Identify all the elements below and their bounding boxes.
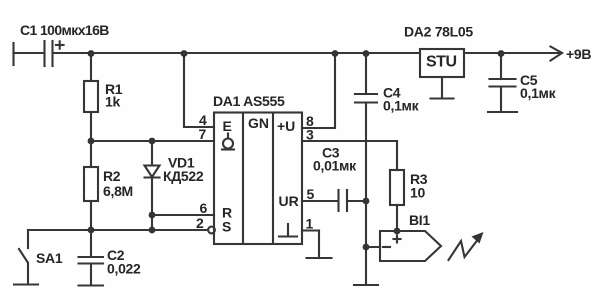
wire: C3 to ground line [347,200,366,202]
B1 plus mark [394,236,401,243]
ground (under DA2) [431,97,454,99]
capacitor C2 [79,230,104,285]
svg-text:DA2 78L05: DA2 78L05 [404,24,473,40]
wire: node A to node B [91,52,184,54]
wire: node C to node D [335,52,366,54]
switch SA1 [19,230,28,284]
junction: pin8 drop / node C [332,50,339,57]
resistor R1 [84,53,98,141]
wire: pin 8 to top rail [302,53,335,128]
wire: C1 to node A (top rail) [53,52,92,54]
voltage regulator DA2 78L05 [420,49,464,77]
svg-text:6,8M: 6,8M [103,183,133,199]
svg-text:1k: 1k [105,94,120,110]
svg-text:GN: GN [248,115,269,131]
junction: R1 top / node A [88,50,95,57]
junction: VD1 line / bottom wire [149,227,156,234]
wire: pin 5 to C3 [302,200,338,202]
junction: C5 top / node E [498,50,505,57]
wire: pin 7 net (R1/R2 to VD1 to IC pin7) [91,140,214,142]
input terminal (left) [12,43,14,65]
svg-text:1: 1 [306,216,314,232]
svg-text:+9В: +9В [566,46,591,62]
ground (under C5) [488,111,517,113]
wire: C4 bottom ground line [365,103,367,286]
capacitor C1 [45,41,64,66]
svg-text:0,1мк: 0,1мк [520,85,557,101]
wire: pin 6 to VD1 cathode line [152,214,214,216]
capacitor C5 [490,53,516,112]
svg-text:10: 10 [410,185,425,201]
capacitor C3 [339,190,348,211]
ground (under SA1) [14,283,38,285]
svg-text:BI1: BI1 [409,212,430,228]
svg-text:+U: +U [277,118,295,134]
wire: node E to +9V arrow [501,52,560,54]
resistor R2 [84,141,98,230]
capacitor C4 [355,53,377,103]
svg-text:2: 2 [196,215,204,231]
svg-text:SA1: SA1 [36,250,63,266]
sound wave zigzag arrow [449,232,484,260]
junction: pin4 drop / node B [181,50,188,57]
junction: B1 minus / ground line [363,244,370,251]
DA1 internal ground symbol [279,224,297,237]
ground lead of DA2 [441,77,443,98]
svg-text:STU: STU [426,54,457,71]
junction: R2 bottom / C2 top on bottom net [88,227,95,234]
DA1 internal generator symbol (circle under E) [222,134,234,150]
svg-text:E: E [223,118,232,134]
svg-text:7: 7 [199,126,207,142]
junction: C4 top / node D [363,50,370,57]
wire: pin 1 to ground [302,231,319,259]
svg-text:0,01мк: 0,01мк [313,158,357,174]
svg-text:UR: UR [279,193,299,209]
wire: ground line to B1 minus [366,246,380,248]
junction: VD1 anode on pin7 net [149,138,156,145]
B1 minus mark [383,246,390,248]
junction: R3 bottom / B1 plus [394,228,401,235]
junction: R1 bottom / R2 top [88,138,95,145]
wire: DA2 output to node E [464,52,501,54]
sound emitter B1 body [380,231,441,261]
svg-text:C1 100мкx16В: C1 100мкx16В [20,22,109,38]
svg-text:КД522: КД522 [163,168,204,184]
svg-text:R2: R2 [103,168,121,184]
wire: bottom net SA1 to IC pin2 [28,229,208,231]
pin 2 inversion bubble at S input [208,227,215,234]
ground (under pin 1) [307,257,332,259]
svg-text:0,022: 0,022 [107,261,141,277]
ground (under C4 line) [354,284,378,286]
diode VD1 [145,141,160,230]
svg-text:6: 6 [200,200,208,216]
resistor R3 [390,170,404,231]
svg-text:5: 5 [307,186,315,202]
wire: pin 4 from top rail [184,53,214,127]
svg-text:3: 3 [306,127,314,143]
op-amp/timer DA1 AS555 body [214,113,302,245]
wire: input terminal to C1 [14,52,45,54]
junction: VD1 cathode / pin6 wire [149,212,156,219]
wire: node B to node C [184,52,335,54]
ground (under C2) [79,284,104,286]
node +9V arrow head [551,47,563,61]
svg-text:S: S [222,219,231,235]
junction: C3 / ground line [363,198,370,205]
svg-text:DA1 AS555: DA1 AS555 [213,93,285,109]
wire: pin 3 to R3 top [302,141,397,170]
wire: node D to DA2 input [366,52,420,54]
svg-text:0,1мк: 0,1мк [383,98,420,114]
